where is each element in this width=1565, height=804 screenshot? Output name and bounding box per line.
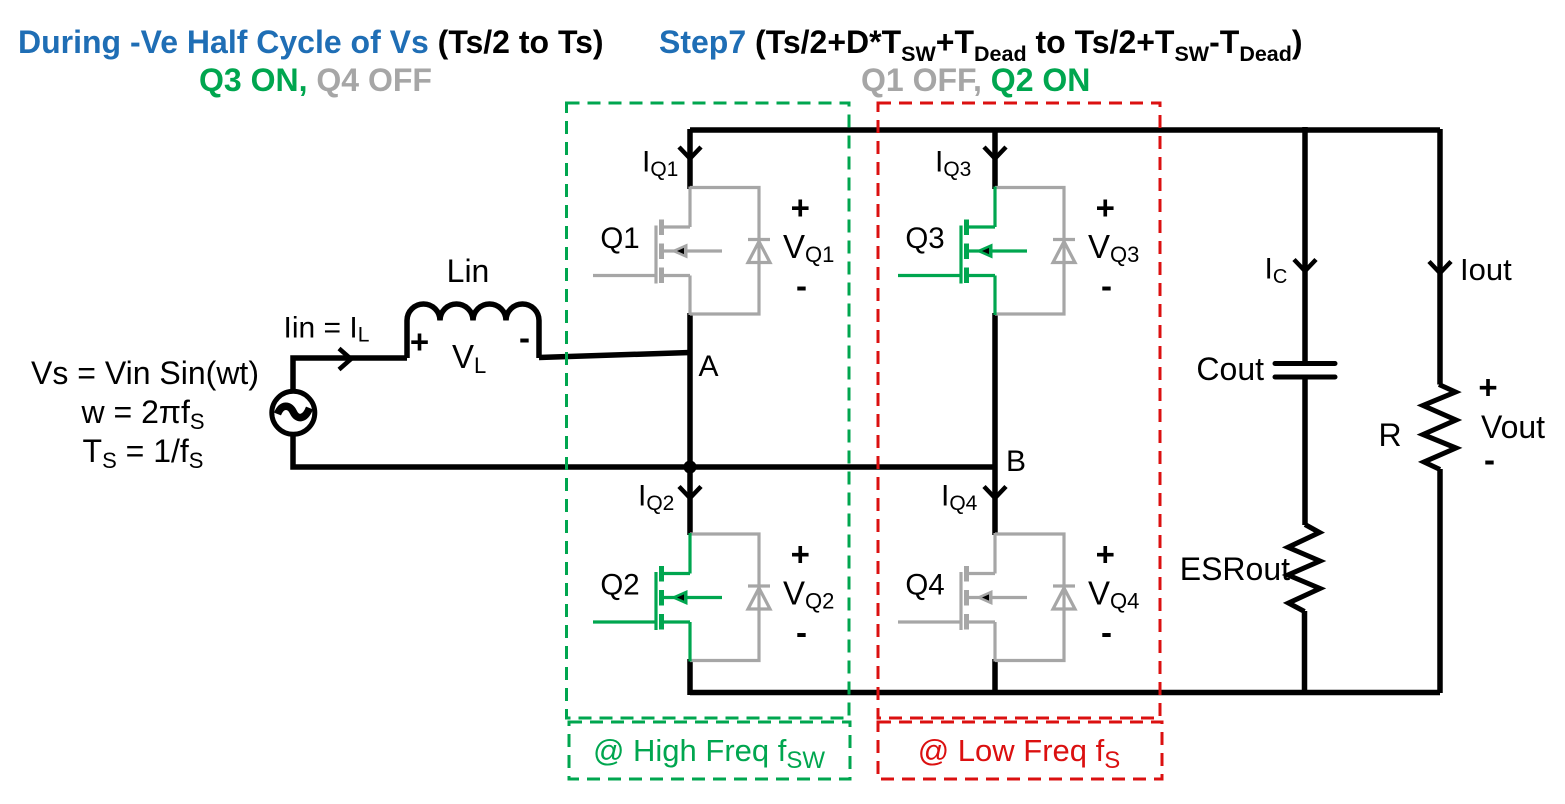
svg-text:During -Ve Half Cycle of Vs (T: During -Ve Half Cycle of Vs (Ts/2 to Ts) (18, 24, 604, 60)
svg-text:R: R (1378, 417, 1401, 453)
wire left leg upper (rail to Q1 drain) (687, 129, 693, 189)
svg-text:@ Low Freq fS: @ Low Freq fS (918, 733, 1121, 774)
wire left leg lower (Q2 source to bottom rail) (687, 659, 693, 695)
svg-text:IQ2: IQ2 (638, 480, 674, 516)
arrow IC (1294, 260, 1316, 272)
arrow IQ4 (984, 487, 1006, 499)
wire load branch lower (1437, 469, 1443, 693)
svg-text:VQ3: VQ3 (1088, 228, 1139, 267)
wire inductor to node A (539, 353, 690, 358)
svg-text:A: A (698, 350, 718, 383)
transistor Q3 (ON, green) with body diode (898, 187, 1139, 316)
red dashed label box (878, 722, 1162, 779)
arrow IQ3 (984, 147, 1006, 159)
wire load branch upper (1437, 129, 1443, 385)
resistor R (1423, 385, 1456, 470)
svg-text:-: - (796, 267, 807, 304)
wire bottom rail (690, 690, 1440, 696)
svg-text:IQ4: IQ4 (941, 480, 978, 516)
ac source Vs (272, 391, 315, 434)
arrow Iout (1429, 262, 1451, 274)
svg-text:ESRout: ESRout (1180, 551, 1290, 587)
svg-text:IC: IC (1265, 253, 1288, 289)
svg-text:IQ1: IQ1 (642, 146, 678, 182)
wire Cout to ESRout (1302, 377, 1308, 525)
green dashed box high-freq leg (567, 103, 850, 718)
svg-text:Step7 (Ts/2+D*TSW+TDead to Ts/: Step7 (Ts/2+D*TSW+TDead to Ts/2+TSW-TDea… (659, 24, 1303, 66)
wire right leg middle (Q3 source to Q4 drain) (992, 313, 998, 535)
inductor Lin (407, 304, 539, 358)
svg-text:Vs = Vin Sin(wt): Vs = Vin Sin(wt) (31, 355, 259, 391)
svg-text:VQ4: VQ4 (1088, 575, 1139, 614)
arrow IQ1 (679, 147, 701, 159)
wire ESRout to bottom rail (1302, 611, 1308, 693)
svg-text:@ High Freq fSW: @ High Freq fSW (593, 733, 825, 774)
svg-text:Q1 OFF, Q2 ON: Q1 OFF, Q2 ON (861, 62, 1090, 98)
svg-text:-: - (1101, 267, 1112, 304)
svg-text:B: B (1006, 445, 1026, 478)
svg-text:Q2: Q2 (600, 569, 639, 602)
capacitor Cout (1275, 364, 1335, 378)
wire source top lead (293, 358, 407, 392)
svg-text:+: + (1096, 189, 1115, 226)
svg-text:VL: VL (452, 338, 486, 378)
wire source bottom lead to node B (293, 435, 995, 468)
svg-text:Iin = IL: Iin = IL (284, 312, 370, 347)
transistor Q1 (OFF, gray) with body diode (593, 187, 834, 316)
svg-text:Lin: Lin (447, 253, 490, 289)
junction dot node A bottom (684, 461, 697, 474)
svg-text:+: + (791, 189, 810, 226)
svg-text:+: + (791, 536, 810, 573)
svg-text:+: + (410, 323, 429, 360)
wire top rail (690, 127, 1440, 133)
wire right leg upper (rail to Q3 drain) (992, 129, 998, 189)
svg-text:+: + (1096, 536, 1115, 573)
svg-text:TS = 1/fS: TS = 1/fS (83, 433, 204, 473)
svg-text:VQ1: VQ1 (783, 228, 834, 267)
transistor Q2 (ON, green) with body diode (593, 533, 834, 662)
green dashed label box (569, 722, 850, 779)
svg-text:Q3: Q3 (905, 222, 944, 255)
arrow Iin (339, 349, 351, 370)
svg-text:w = 2πfS: w = 2πfS (80, 394, 204, 434)
transistor Q4 (OFF, gray) with body diode (898, 533, 1139, 662)
wire Cout branch upper (1302, 127, 1308, 363)
svg-text:Vout: Vout (1481, 409, 1545, 445)
wire right leg lower (Q4 source to bottom rail) (992, 659, 998, 695)
svg-text:Cout: Cout (1196, 351, 1264, 387)
svg-text:-: - (796, 614, 807, 651)
svg-text:+: + (1478, 369, 1497, 406)
svg-text:-: - (519, 319, 530, 356)
wire left leg middle (Q1 source to Q2 drain) (687, 313, 693, 535)
red dashed box low-freq leg (878, 103, 1160, 718)
svg-text:Q4: Q4 (905, 569, 944, 602)
svg-text:-: - (1101, 614, 1112, 651)
arrow IQ2 (679, 487, 701, 499)
resistor ESRout (1288, 525, 1320, 612)
svg-text:IQ3: IQ3 (935, 146, 971, 182)
svg-text:Q1: Q1 (600, 222, 639, 255)
svg-text:Q3 ON, Q4 OFF: Q3 ON, Q4 OFF (199, 62, 432, 98)
svg-text:VQ2: VQ2 (783, 575, 834, 614)
svg-text:Iout: Iout (1460, 252, 1512, 287)
svg-text:-: - (1484, 441, 1495, 478)
